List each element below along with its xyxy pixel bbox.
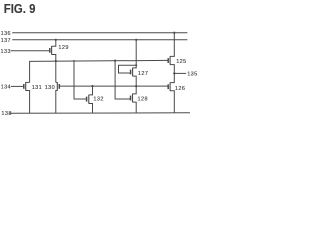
transistor Q127 (diode connected) — [119, 40, 137, 86]
transistor Q129 — [50, 40, 56, 61]
wire 133 to gate of Q129 — [11, 50, 50, 52]
wire node A (y=60.7) from Q131 drain to Q125 gate — [30, 60, 168, 82]
junction dot rail137/Q127 drain — [135, 39, 137, 41]
svg-text:128: 128 — [138, 97, 148, 103]
svg-text:131: 131 — [32, 85, 42, 91]
junction dot node A / Q128 gate tap — [114, 60, 116, 62]
transistor Q128 — [131, 86, 137, 113]
wire from node A down to gate of Q132 — [74, 61, 86, 99]
svg-text:125: 125 — [176, 59, 186, 65]
rail 136 — [12, 32, 187, 34]
junction dot node A / Q130 drain — [55, 60, 57, 62]
wire node B (y=86.4) from Q130 gate to Q126 gate — [60, 85, 168, 87]
junction dot Q127 diode loop — [135, 64, 137, 66]
svg-text:135: 135 — [187, 72, 197, 78]
rail 137 — [12, 39, 187, 41]
svg-text:130: 130 — [45, 85, 55, 91]
svg-text:133: 133 — [1, 49, 11, 55]
transistor Q125 — [168, 33, 174, 74]
svg-text:127: 127 — [138, 71, 148, 77]
transistor Q132 — [87, 86, 93, 113]
svg-text:132: 132 — [93, 97, 103, 103]
diode loop gate-to-drain of Q127 — [119, 65, 137, 73]
svg-text:134: 134 — [1, 85, 11, 91]
wire from node A down to gate of Q128 — [115, 61, 130, 99]
rail 138 (bottom) — [10, 112, 191, 115]
svg-text:137: 137 — [1, 38, 11, 44]
transistor Q130 (mirrored) — [56, 82, 60, 113]
junction dot node A / Q132 gate tap — [73, 60, 75, 62]
svg-text:138: 138 — [1, 111, 11, 117]
svg-text:FIG. 9: FIG. 9 — [4, 1, 36, 16]
node 135 leader line — [174, 72, 186, 74]
wire 134 to gate of Q131 — [11, 85, 23, 87]
transistor Q131 — [24, 82, 30, 113]
vertical Q129 source node down to Q130 drain — [55, 61, 57, 82]
svg-text:129: 129 — [58, 45, 68, 51]
junction dot rail137/Q129 drain — [55, 39, 57, 41]
junction dot node B / Q128 drain — [135, 85, 137, 87]
junction dot node B / Q132 drain — [91, 85, 93, 87]
transistor Q126 — [168, 73, 174, 113]
svg-text:126: 126 — [175, 86, 185, 92]
svg-text:136: 136 — [1, 31, 11, 37]
junction dot rail136/Q125 drain — [173, 32, 175, 34]
junction dot node 135 — [173, 72, 175, 74]
